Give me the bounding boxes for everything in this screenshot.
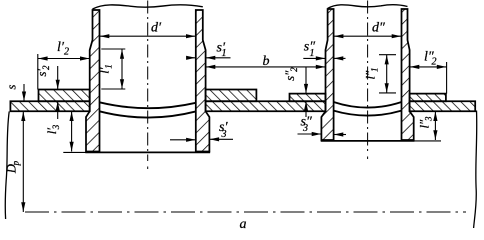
right stub centerline end dot [367, 157, 369, 160]
svg-text:b: b [263, 54, 270, 69]
dimension l'3 line [71, 111, 73, 151]
dimension l''3 line [434, 111, 436, 140]
dimension s''3 inner arrow [334, 132, 344, 136]
dimension d'' left arrow [334, 34, 344, 38]
dimension l''1 down arrow [385, 83, 389, 93]
dimension s'2 up arrow [56, 101, 60, 111]
left stub wall (right) [196, 10, 210, 152]
left bore saddle curve upper [100, 102, 196, 108]
dimension s'2 upper line [57, 66, 59, 90]
dimension l'2 extension line [37, 54, 39, 90]
right stub reinforcing pad left part [290, 94, 326, 102]
drum shell plate (right segment) [410, 101, 476, 111]
left stub reinforcing pad right part [206, 90, 257, 102]
dimension s'1 inner line [187, 57, 196, 59]
dimension s'3 inner line [170, 139, 196, 141]
drum shell plate (left segment) [10, 101, 89, 111]
dimension s''1 leader line [303, 57, 325, 59]
dimension l''2 right arrow [437, 65, 447, 69]
dimension d' right arrow [186, 34, 196, 38]
dimension l''3 up arrow [433, 112, 437, 122]
left stub centerline end dot [147, 167, 149, 170]
dimension s''3 outer line [298, 133, 322, 135]
right stub reinforcing pad right part [410, 94, 446, 102]
right stub wall (right) [402, 9, 414, 140]
dimension b left arrow [206, 65, 216, 69]
dimension l''1 up arrow [385, 55, 389, 65]
dimension l'2 line [38, 58, 90, 60]
right bore saddle curve lower [334, 111, 402, 116]
svg-text:s: s [5, 84, 19, 89]
dimension b right arrow [316, 65, 326, 69]
dimension s''2 down arrow [304, 84, 308, 94]
left stub bottom end face [85, 151, 210, 153]
dimension l'3 extension line bottom [63, 151, 86, 153]
dimension s''1 inner line [334, 57, 346, 59]
dimension s'3 inner arrow [186, 138, 196, 142]
svg-text:d′: d′ [151, 21, 162, 36]
dimension l'1 extension line top [101, 48, 125, 50]
dimension s''1 arrow (outer) [316, 56, 326, 60]
svg-text:1: 1 [222, 48, 227, 59]
dimension s''3 outer arrow [312, 132, 322, 136]
dimension l''1 extension line bottom [379, 92, 396, 94]
left stub centerline [147, 1, 149, 162]
dimension s''2 upper line [305, 68, 307, 94]
dimension l''3 down arrow [433, 130, 437, 140]
dimension l'1 line [121, 49, 123, 89]
drum axis centerline [25, 211, 466, 213]
dimension d'' right arrow [392, 34, 402, 38]
dimension s''3 inner line [334, 134, 346, 136]
dimension b line [206, 66, 326, 68]
svg-text:2: 2 [432, 57, 437, 68]
dimension Dp down arrow [21, 202, 25, 212]
dimension l''1 extension line top [379, 54, 396, 56]
svg-text:3: 3 [302, 123, 308, 134]
dimension Dp up arrow [21, 112, 25, 122]
svg-text:d″: d″ [372, 21, 385, 36]
drum break line left (wavy) [5, 112, 9, 220]
dimension l''2 extension line [446, 62, 448, 94]
dimension l'2 left arrow [38, 56, 48, 60]
dimension l'3 up arrow [70, 112, 74, 122]
svg-text:1: 1 [310, 48, 315, 59]
dimension l'1 extension line bottom [101, 88, 125, 90]
dimension l'1 up arrow [120, 49, 124, 59]
dimension s'3 outer arrow [210, 137, 220, 141]
left stub reinforcing pad left part [39, 90, 90, 102]
dimension Dp line [22, 111, 24, 212]
left stub top break (wavy) line [93, 5, 203, 9]
dimension l''2 line [410, 66, 447, 68]
dimension s''1 arrow (inner) [334, 56, 344, 60]
svg-text:2: 2 [64, 47, 69, 58]
right bore saddle curve upper [334, 102, 402, 108]
svg-text:a: a [240, 217, 247, 232]
dimension s (shell thickness) line [23, 84, 25, 101]
right stub centerline [367, 1, 369, 152]
dimension s'2 lower line [57, 101, 59, 119]
dimension l''1 line [386, 55, 388, 93]
dimension s down arrow [22, 92, 26, 102]
dimension s'3 outer line [209, 138, 233, 140]
dimension d' line [100, 35, 196, 37]
dimension s''2 up arrow [304, 101, 308, 111]
dimension s''2 lower line [305, 101, 307, 117]
dimension d'' line [334, 35, 401, 37]
dimension s'1 arrow (outer) [206, 56, 216, 60]
dimension l'1 down arrow [120, 79, 124, 89]
dimension l'3 down arrow [70, 142, 74, 152]
right stub bottom end face [321, 140, 415, 142]
right stub wall (left) [321, 9, 333, 140]
left bore saddle curve lower [100, 111, 196, 117]
drum shell plate (middle segment) [206, 101, 326, 111]
dimension s'2 down arrow [56, 80, 60, 90]
dimension s'1 leader line [206, 57, 231, 59]
svg-text:3: 3 [221, 129, 227, 140]
dimension s'1 arrow (inner) [186, 56, 196, 60]
dimension d' left arrow [100, 34, 110, 38]
dimension l''3 extension line bottom [414, 140, 441, 142]
left stub wall (left) [86, 10, 100, 152]
dimension l''2 left arrow [410, 65, 420, 69]
dimension l'2 right arrow [80, 56, 90, 60]
right stub top break (wavy) line [328, 5, 408, 9]
drum break line right (wavy) [474, 111, 477, 229]
